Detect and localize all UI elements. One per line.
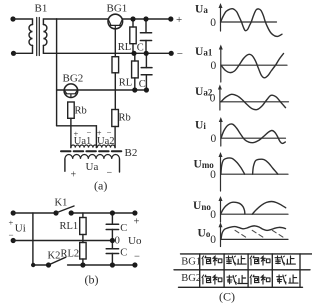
- waveform Uo discharge dash 2: [252, 230, 263, 237]
- svg-text:BG1: BG1: [107, 3, 128, 15]
- node (b) output terminal +: [110, 210, 140, 227]
- capacitor C (b lower): [106, 241, 127, 266]
- svg-text:Umo: Umo: [194, 158, 215, 170]
- switch K1: [53, 198, 74, 216]
- waveform Ua1 curve: [221, 54, 284, 78]
- transformer B1 core: [37, 18, 40, 56]
- wire (b) bottom rail right: [68, 264, 135, 266]
- svg-text:+: +: [9, 218, 14, 228]
- svg-text:+: +: [134, 217, 140, 228]
- wire input bottom: [14, 46, 33, 54]
- svg-text:B1: B1: [35, 3, 48, 15]
- resistor RL (stage2): [119, 53, 138, 90]
- waveform Umo axes: [194, 152, 289, 191]
- svg-text:−: −: [177, 48, 183, 60]
- svg-text:Uno: Uno: [193, 200, 211, 212]
- node Ua output labels: [71, 161, 113, 181]
- resistor RL1: [60, 213, 87, 241]
- svg-text:Rb: Rb: [75, 106, 87, 117]
- wire Rb1 to B2 winding right end: [114, 127, 116, 148]
- svg-text:−: −: [134, 252, 140, 263]
- waveform Uo axes: [198, 222, 289, 246]
- svg-text:C: C: [120, 248, 127, 259]
- wire input top: [13, 19, 33, 25]
- svg-text:BG1: BG1: [181, 256, 201, 267]
- label (b): [85, 273, 99, 287]
- svg-text:0: 0: [115, 236, 120, 247]
- wire B2 secondary left terminal: [64, 159, 66, 171]
- svg-text:RL2: RL2: [61, 249, 80, 260]
- svg-text:0: 0: [210, 169, 216, 181]
- table column line 3: [247, 254, 249, 287]
- node (b) output terminal -: [110, 252, 140, 268]
- table cell row2 baohe (col4): [250, 275, 270, 284]
- transistor BG1: [107, 3, 128, 29]
- table column line 1: [199, 254, 201, 287]
- wire (b) top rail left: [13, 212, 56, 214]
- svg-text:RL1: RL1: [60, 221, 79, 232]
- table cell row2 baohe (col2): [202, 275, 222, 284]
- label Ui: [9, 218, 26, 241]
- svg-text:C: C: [137, 43, 144, 54]
- table cell row2 zaizhi (col3): [227, 275, 247, 284]
- wire vertical line A from rail1 down to B2 center tap wire: [56, 19, 58, 126]
- waveform Umo curve hump2: [253, 159, 278, 174]
- table cell row2 zaizhi (col5): [277, 275, 298, 284]
- capacitor C (stage1): [137, 19, 152, 54]
- svg-text:Ua2: Ua2: [195, 86, 213, 98]
- svg-text:Uo: Uo: [128, 235, 142, 247]
- resistor divider (BG1 base chain upper): [112, 57, 119, 73]
- resistor RL2: [61, 241, 87, 266]
- junction dots rail1: [130, 16, 135, 21]
- svg-text:0: 0: [211, 133, 217, 145]
- wire B1 secondary top to rail1: [43, 19, 56, 25]
- transformer B2 core (dashed): [61, 150, 123, 152]
- waveform Ua curve: [221, 9, 282, 37]
- svg-text:−: −: [107, 168, 113, 179]
- svg-text:B2: B2: [125, 147, 138, 159]
- svg-text:Ui: Ui: [195, 119, 206, 131]
- waveform Uno curve hump1: [221, 202, 245, 214]
- svg-text:RL: RL: [119, 78, 132, 89]
- wire (b) left vertical: [32, 213, 34, 265]
- svg-text:RL: RL: [118, 42, 131, 53]
- waveform Umo curve hump1: [221, 158, 245, 174]
- wire BG1 base lead down: [114, 29, 116, 57]
- wire rail1 right (BG1 to + terminal): [123, 18, 171, 20]
- table cell row1 baohe (col4): [250, 256, 270, 265]
- wire center-tap vertical to B2: [95, 126, 97, 148]
- junction dots rail3: [132, 87, 137, 92]
- node input terminal bottom: [11, 51, 16, 56]
- node Ui terminal +: [11, 210, 16, 215]
- capacitor C (b upper): [106, 213, 127, 241]
- wire BG1 base chain middle: [114, 73, 116, 110]
- svg-text:BG2: BG2: [63, 73, 84, 85]
- wire rail3 (BG2 collector-emitter rail): [57, 89, 147, 91]
- transformer B2 winding Ua2 labels: [97, 128, 115, 147]
- svg-text:(a): (a): [94, 179, 107, 193]
- transformer B1 label: [35, 3, 48, 15]
- svg-text:+: +: [71, 170, 77, 181]
- node Ui terminal -: [11, 238, 16, 243]
- table middle border: [174, 269, 310, 271]
- node input terminal top: [10, 16, 15, 21]
- table column line 4: [271, 254, 273, 287]
- resistor Rb (BG1): [112, 110, 119, 127]
- svg-text:K1: K1: [55, 198, 68, 209]
- waveform Uo discharge dash 3: [272, 230, 283, 237]
- switch K2: [31, 251, 66, 268]
- capacitor C (stage2): [139, 53, 152, 90]
- table column line 2: [223, 254, 225, 287]
- svg-text:C: C: [120, 223, 127, 234]
- transformer B2 label: [125, 147, 138, 159]
- waveform Uno axes: [193, 196, 288, 222]
- svg-text:+: +: [176, 14, 182, 26]
- table cell row1 jiezhi (col3): [226, 256, 246, 265]
- waveform Ui axes: [195, 117, 286, 146]
- transformer B1 primary winding: [29, 25, 32, 46]
- svg-text:0: 0: [210, 234, 216, 246]
- svg-text:Ui: Ui: [15, 223, 26, 235]
- svg-text:Ua: Ua: [195, 4, 208, 16]
- wire (b) top rail right: [71, 212, 135, 214]
- wire rail2 (B1 secondary bottom to - terminal): [43, 52, 171, 54]
- label (a): [94, 179, 107, 193]
- waveform Uno curve hump2: [252, 202, 286, 215]
- waveform Ua1 axes: [195, 45, 287, 83]
- svg-text:Ua: Ua: [86, 161, 99, 173]
- svg-text:Uo: Uo: [198, 228, 211, 240]
- svg-text:(C): (C): [219, 290, 235, 303]
- svg-text:0: 0: [211, 60, 217, 72]
- svg-text:0: 0: [210, 209, 216, 221]
- wire (b) bottom rail left: [33, 264, 49, 266]
- svg-text:K2: K2: [48, 251, 61, 262]
- resistor RL (stage1): [118, 19, 136, 53]
- svg-text:Rb: Rb: [119, 113, 131, 124]
- svg-text:−: −: [9, 230, 14, 240]
- waveform Ua axes: [195, 3, 277, 31]
- wire B1 secondary bottom to rail2: [42, 46, 44, 54]
- waveform Uo discharge dash 1: [235, 230, 246, 237]
- label Uo: [128, 235, 142, 247]
- table cell row1 baohe (col2): [202, 256, 222, 265]
- waveform Ui curve: [221, 124, 285, 143]
- transformer B1 secondary winding: [43, 25, 47, 46]
- svg-text:(b): (b): [85, 273, 99, 287]
- wire (b) middle rail: [13, 240, 112, 242]
- table column line 5: [299, 254, 301, 287]
- svg-text:Ua1: Ua1: [195, 46, 213, 58]
- resistor Rb (BG2): [68, 102, 87, 148]
- node output terminal -: [169, 48, 183, 60]
- wire B2 secondary right terminal: [119, 159, 121, 172]
- transformer B2 winding Ua1 labels: [74, 128, 92, 147]
- transformer B2 secondary winding: [65, 154, 120, 158]
- node output terminal +: [168, 14, 182, 26]
- svg-text:0: 0: [210, 17, 216, 29]
- waveform Uo curve: [221, 226, 286, 240]
- table cell row1 jiezhi (col5): [275, 256, 295, 265]
- waveform Ua2 axes: [195, 85, 289, 111]
- table top border: [181, 253, 313, 255]
- transformer B2 primary winding: [71, 145, 115, 148]
- wire center-tap feed horizontal: [57, 125, 97, 127]
- table bottom border: [179, 286, 303, 288]
- junction dot RL2 bottom: [80, 262, 85, 267]
- svg-text:BG2: BG2: [181, 273, 201, 284]
- waveform Ua2 curve: [221, 94, 286, 109]
- wire rail1 left (top supply rail to BG1): [57, 18, 109, 20]
- junction dots rail2: [131, 51, 136, 56]
- node 0 (center): [110, 236, 120, 247]
- label (C): [219, 290, 235, 303]
- transistor BG2: [63, 73, 84, 98]
